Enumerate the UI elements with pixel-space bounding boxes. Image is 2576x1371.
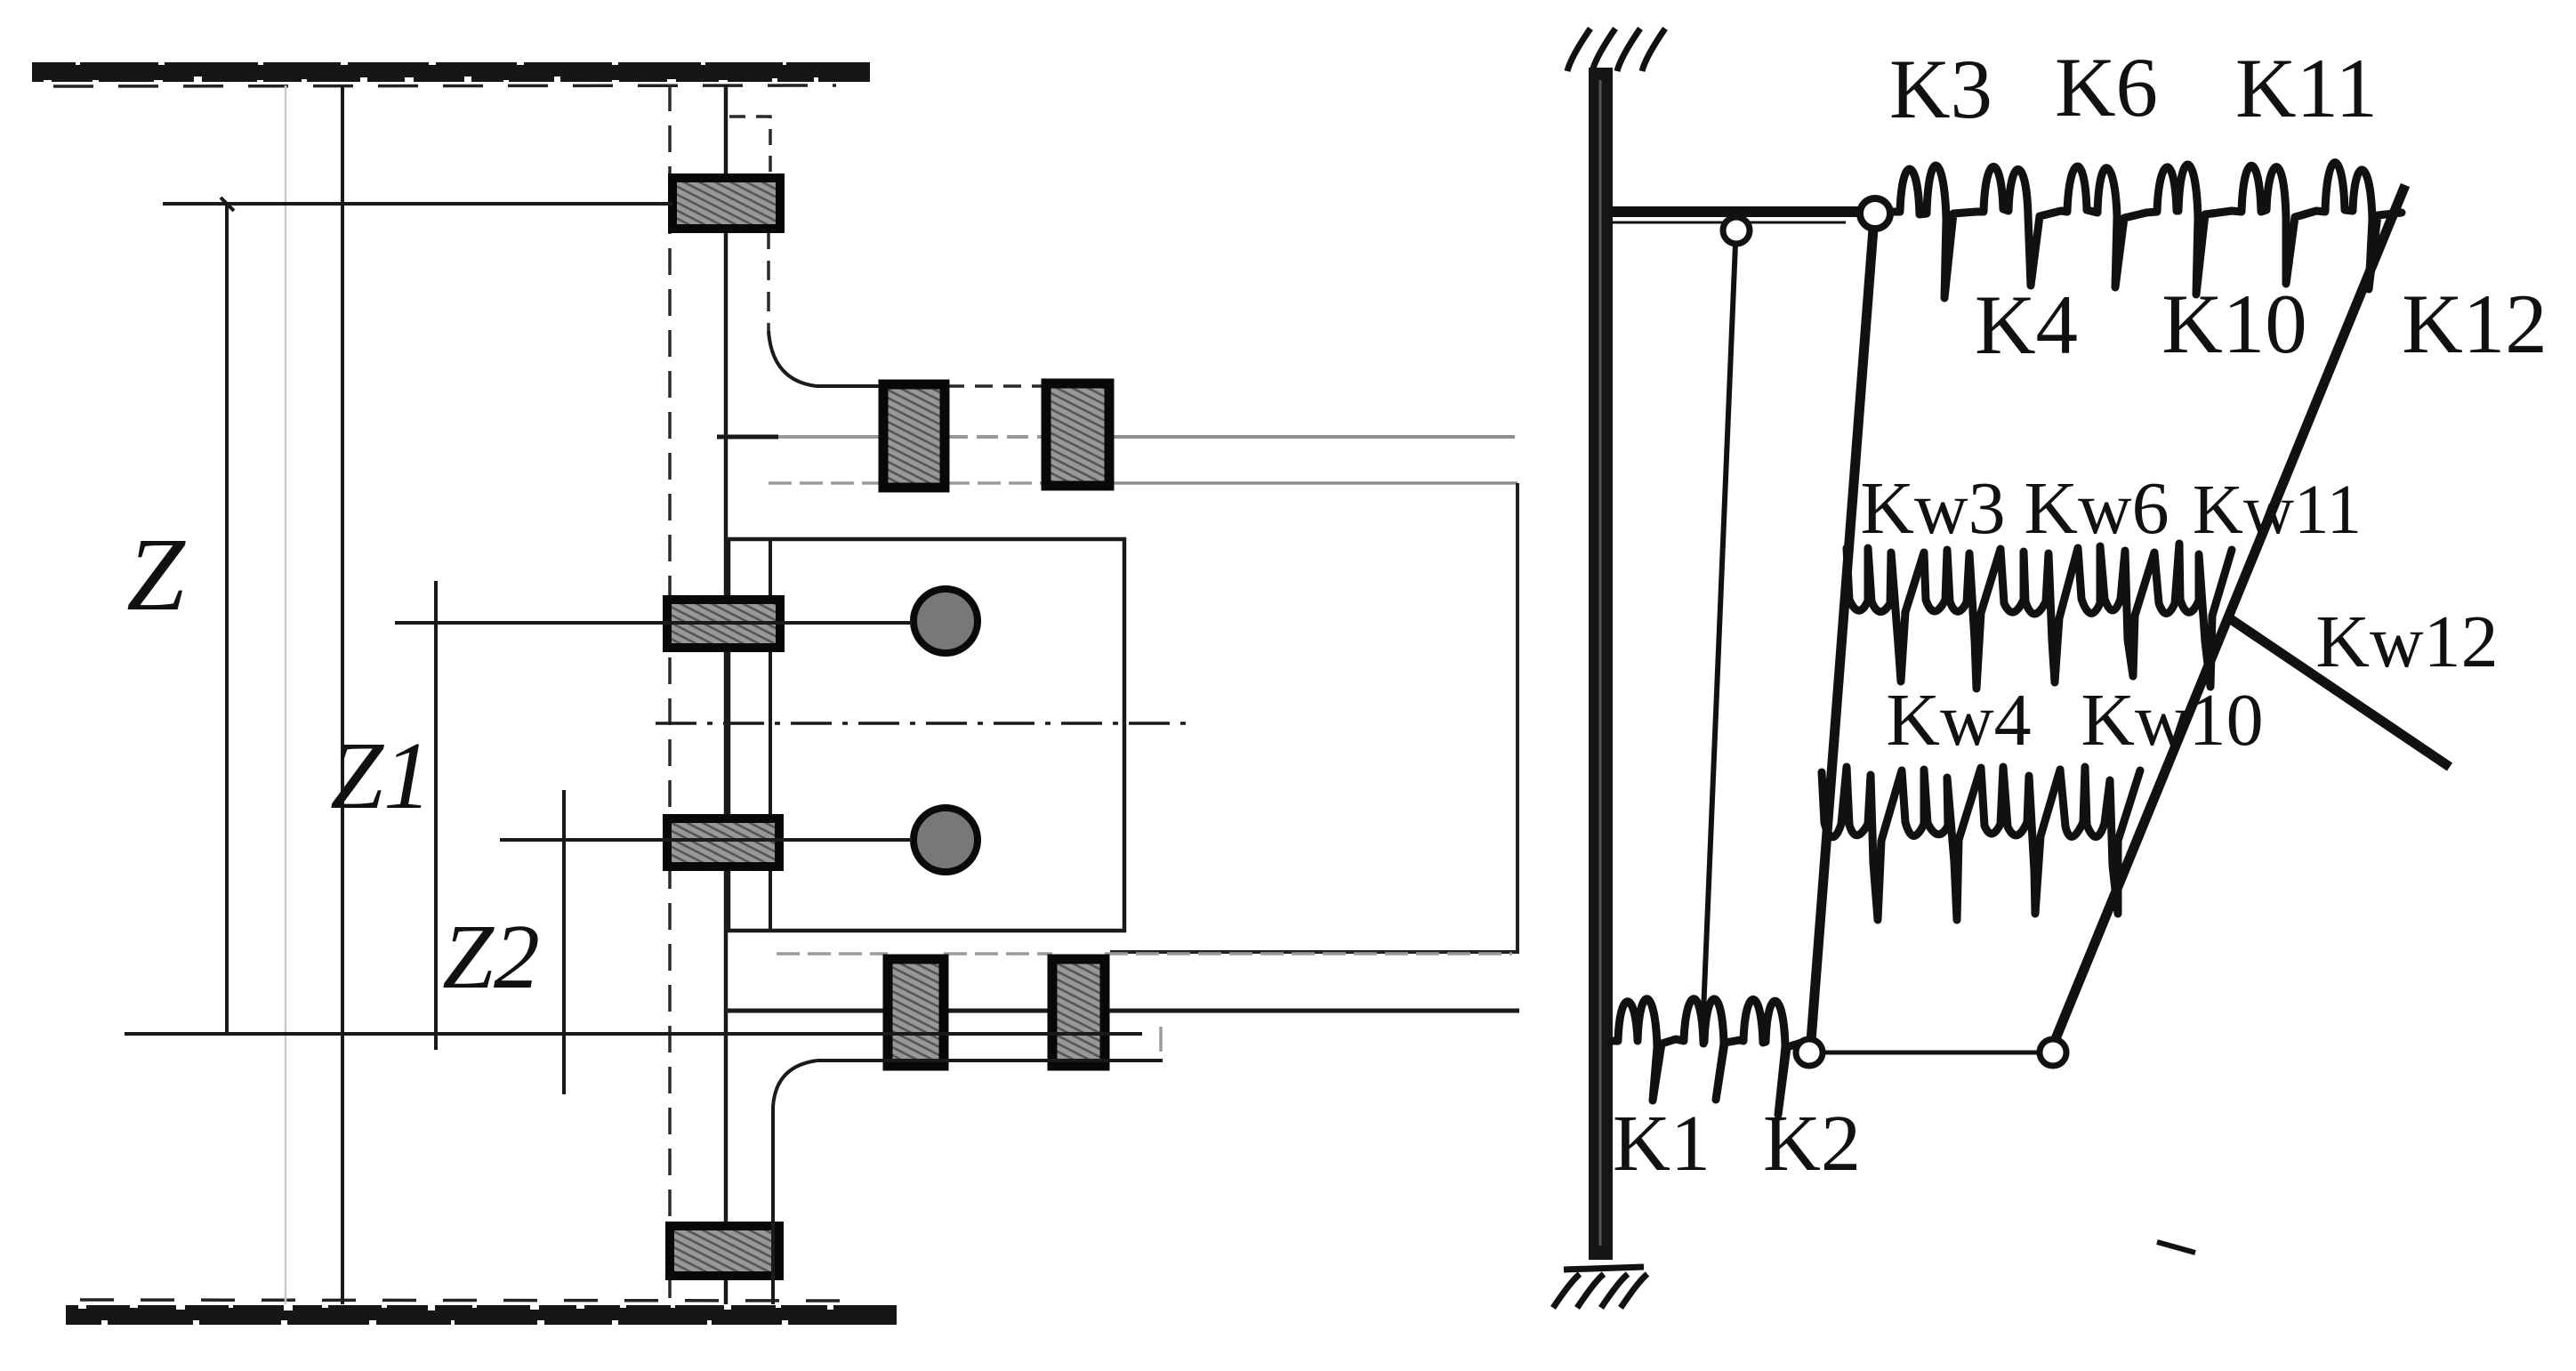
right slant rod xyxy=(2055,185,2405,1041)
ground bottom xyxy=(1553,1267,1647,1308)
wall column xyxy=(1589,68,1613,1260)
node on top link xyxy=(1723,217,1750,244)
svg-text:K4: K4 xyxy=(1975,278,2078,372)
svg-text:K12: K12 xyxy=(2402,277,2548,371)
dimension Z1 line xyxy=(395,581,912,1050)
label Kw11 xyxy=(2193,472,2362,549)
label K2 xyxy=(1763,1100,1861,1188)
label Kw12 xyxy=(2315,601,2498,683)
node top right xyxy=(1860,198,1890,229)
bolt column top xyxy=(672,178,780,229)
node bottom left xyxy=(1796,1039,1823,1066)
bolt column bottom xyxy=(670,1226,779,1276)
wall section bottom band xyxy=(66,1300,897,1325)
label K1 xyxy=(1613,1100,1711,1188)
column right edge xyxy=(724,85,729,1304)
label K3 xyxy=(1889,42,1992,136)
svg-text:Kw4: Kw4 xyxy=(1886,679,2031,762)
svg-text:K11: K11 xyxy=(2235,41,2378,135)
svg-text:Kw3: Kw3 xyxy=(1860,467,2005,550)
label K10 xyxy=(2161,277,2307,371)
label Kw10 xyxy=(2081,679,2263,762)
spring row Kw3 Kw6 Kw11 xyxy=(1847,544,2232,689)
spring K1 K2 xyxy=(1612,999,1804,1115)
bolt top-rail right xyxy=(1046,383,1109,486)
hanging rod thin xyxy=(1703,244,1735,1034)
svg-text:K10: K10 xyxy=(2161,277,2307,371)
label K6 xyxy=(2055,40,2158,134)
svg-text:K1: K1 xyxy=(1613,1100,1711,1188)
svg-text:Z1: Z1 xyxy=(330,723,431,829)
label Kw6 xyxy=(2024,467,2169,550)
Kw12 branch rod xyxy=(2226,616,2450,767)
spring row Kw4 Kw10 xyxy=(1822,767,2140,920)
node bottom right xyxy=(2040,1039,2066,1066)
label K4 xyxy=(1975,278,2078,372)
top rail lines xyxy=(717,437,1517,483)
wall section top band xyxy=(32,60,870,86)
svg-text:Z: Z xyxy=(126,516,186,633)
svg-text:Kw6: Kw6 xyxy=(2024,467,2169,550)
column hidden edge dashed xyxy=(668,85,672,1304)
bolt bottom-rail left xyxy=(888,959,944,1066)
svg-text:Z2: Z2 xyxy=(442,906,540,1008)
svg-text:K6: K6 xyxy=(2055,40,2158,134)
spring row K3 K6 K11 xyxy=(1891,163,2402,298)
bolt top-rail left xyxy=(883,384,945,488)
label Z xyxy=(126,516,186,633)
label Z1 xyxy=(330,723,431,829)
label Kw4 xyxy=(1886,679,2031,762)
left slant rod xyxy=(1811,229,1873,1041)
label K11 xyxy=(2235,41,2378,135)
top link bar xyxy=(1613,212,1864,222)
label K12 xyxy=(2402,277,2548,371)
bottom link xyxy=(1823,1051,2039,1055)
hidden step top dashed xyxy=(729,117,770,178)
bolt column lower-middle xyxy=(667,819,779,867)
flange bottom plate xyxy=(773,1027,1163,1304)
bolt head circle lower xyxy=(914,808,978,872)
bottom rail lines xyxy=(727,954,1519,1011)
svg-text:Kw12: Kw12 xyxy=(2315,601,2498,683)
bolt column upper-middle xyxy=(667,600,780,648)
svg-text:K3: K3 xyxy=(1889,42,1992,136)
head block rectangle xyxy=(729,539,1124,931)
bottom reference line xyxy=(125,1032,1142,1036)
stray tick mark xyxy=(2157,1242,2195,1253)
dimension Z2 line xyxy=(500,790,912,1094)
flange hidden edge top xyxy=(769,230,1046,386)
ground top xyxy=(1567,28,1665,71)
bolt head circle upper xyxy=(914,589,978,653)
column faint line xyxy=(285,85,287,1304)
column left edge xyxy=(341,85,344,1304)
svg-text:Kw10: Kw10 xyxy=(2081,679,2263,762)
label Kw3 xyxy=(1860,467,2005,550)
saddle outer box right edge xyxy=(1110,483,1517,952)
label Z2 xyxy=(442,906,540,1008)
svg-text:K2: K2 xyxy=(1763,1100,1861,1188)
bolt bottom-rail right xyxy=(1052,959,1105,1066)
svg-text:Kw11: Kw11 xyxy=(2193,472,2362,549)
centerline xyxy=(656,722,1190,725)
dimension Z line xyxy=(163,198,672,1035)
